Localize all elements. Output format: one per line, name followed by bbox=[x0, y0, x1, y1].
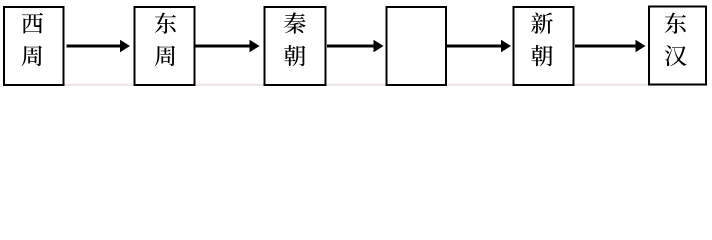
arrow 1 bbox=[67, 40, 131, 53]
box 东汉 bbox=[649, 7, 706, 85]
box 秦朝 bbox=[265, 7, 326, 85]
arrow 4 bbox=[447, 40, 511, 53]
arrow 2 bbox=[196, 40, 260, 53]
box (blank) bbox=[387, 7, 447, 85]
box 东周 bbox=[135, 7, 195, 85]
faint horizontal rule near bottom bbox=[8, 84, 708, 86]
box 新朝 bbox=[514, 7, 574, 85]
arrow 3 bbox=[327, 40, 384, 53]
arrow 5 bbox=[575, 40, 646, 53]
box 西周 bbox=[4, 7, 64, 85]
